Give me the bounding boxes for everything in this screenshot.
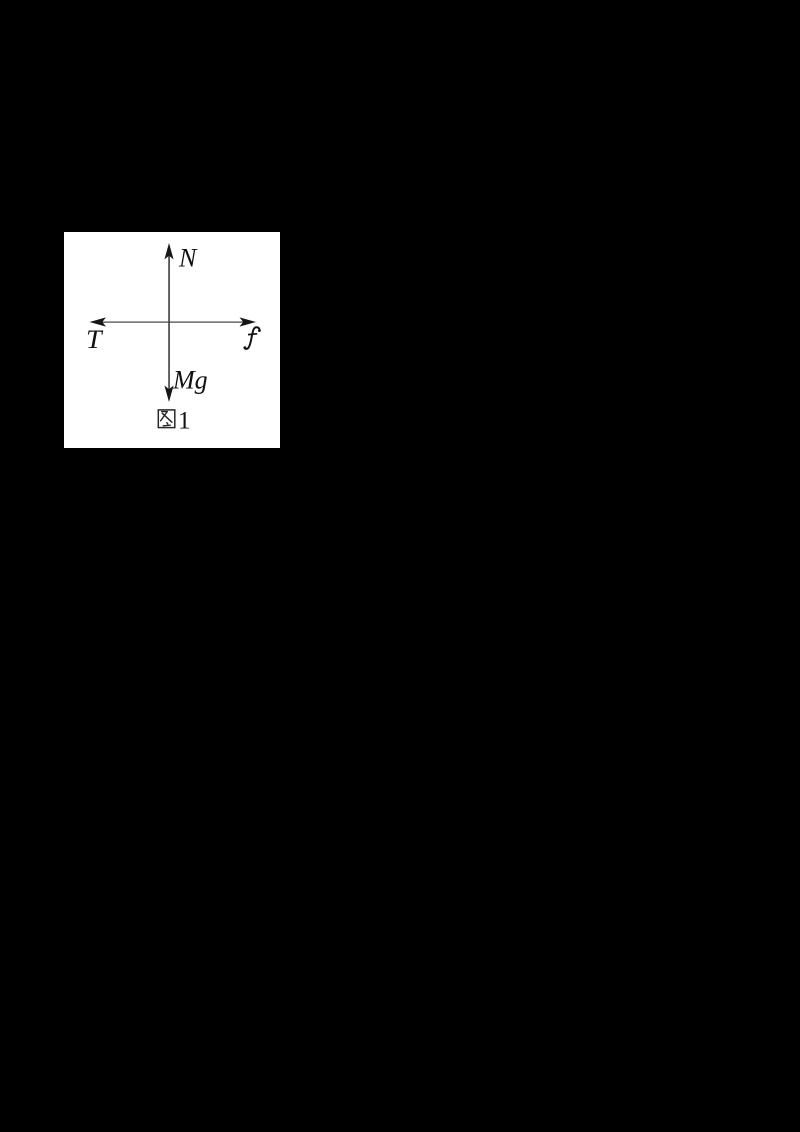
svg-text:Mg: Mg bbox=[172, 366, 208, 395]
svg-text:N: N bbox=[178, 244, 198, 273]
svg-text:1: 1 bbox=[178, 408, 191, 435]
svg-text:T: T bbox=[86, 325, 103, 354]
